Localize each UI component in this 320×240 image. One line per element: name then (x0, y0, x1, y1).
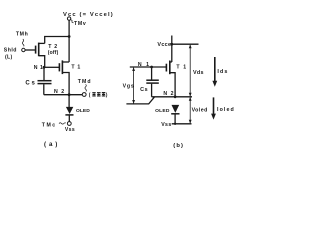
oled OLED anode wire (68, 95, 70, 107)
transistor T1 channel bar (61, 60, 63, 74)
leader squiggle TMd (85, 84, 86, 91)
svg-text:(a): (a) (44, 141, 60, 148)
wire T2 gate lead (25, 49, 35, 51)
svg-text:(L): (L) (5, 55, 13, 61)
oled OLED fig b cathode bar (171, 113, 179, 115)
measure Vgs arrow (132, 67, 135, 104)
transistor T1b gate bar (165, 64, 167, 72)
svg-text:(b): (b) (173, 143, 184, 149)
svg-text:T 1: T 1 (176, 65, 187, 71)
node N1 dot (43, 66, 46, 69)
node N2 dot fig b (174, 95, 177, 98)
svg-text:Vss: Vss (65, 127, 75, 133)
svg-text:(off): (off) (48, 50, 59, 56)
capacitor Cs top plate (38, 80, 52, 82)
svg-text:T 1: T 1 (71, 65, 81, 71)
svg-text:N 1: N 1 (34, 65, 44, 71)
svg-text:Ioled: Ioled (217, 107, 235, 113)
svg-text:Cs: Cs (25, 81, 36, 87)
node junction Vcc rail (68, 35, 71, 38)
svg-text:Cs: Cs (140, 87, 148, 93)
transistor T1b drain lead (170, 61, 172, 63)
svg-text:Vcce: Vcce (157, 42, 171, 48)
wire OLED cathode down (68, 116, 70, 122)
label not-connected (89, 92, 108, 99)
leader squiggle TMh (22, 39, 24, 46)
svg-text:Ids: Ids (217, 69, 228, 75)
terminal TMd stub (82, 93, 86, 97)
node Vcc dot fig b (170, 43, 173, 46)
svg-text:Vgs: Vgs (123, 83, 135, 89)
terminal Vcc (67, 17, 70, 20)
transistor T2 source lead (39, 56, 45, 68)
transistor T1 gate bar (58, 63, 60, 71)
measure Voled arrow (189, 97, 192, 124)
transistor T1b channel bar (169, 61, 171, 75)
svg-text:N 1: N 1 (138, 62, 151, 68)
oled OLED fig b diode triangle (172, 105, 180, 113)
svg-text:Shld: Shld (4, 48, 17, 54)
svg-text:TMd: TMd (78, 79, 92, 85)
node N1 dot fig b (150, 66, 153, 69)
transistor T1b source lead (170, 73, 175, 97)
transistor T1 drain lead (62, 61, 69, 63)
measure Vds arrow (189, 44, 192, 96)
terminal TMc (67, 122, 71, 126)
wire top rail to T2 drain (45, 37, 69, 44)
oled OLED cathode bar (65, 114, 73, 116)
wire Vcc stub (171, 36, 173, 63)
svg-text:N 2: N 2 (54, 89, 65, 95)
capacitor Cs fig b bottom lead (151, 84, 153, 97)
capacitor Cs bottom plate (38, 83, 52, 85)
transistor T2 channel bar (38, 43, 40, 57)
node N2 dot (68, 93, 71, 96)
leader squiggle TMc (59, 123, 66, 124)
capacitor Cs top lead (43, 67, 45, 80)
terminal Shld (22, 48, 25, 51)
svg-text:Vds: Vds (193, 70, 204, 76)
svg-text:OLED: OLED (155, 108, 170, 114)
current arrow Ids (212, 57, 217, 87)
svg-text:N 2: N 2 (163, 91, 174, 97)
wire N2 rail fig b (152, 96, 192, 98)
svg-text:Vss: Vss (161, 122, 171, 128)
wire N2 rail (44, 94, 83, 96)
wire Vgs bottom leader (126, 97, 154, 104)
leader squiggle TMv (71, 20, 74, 23)
node Vss dot (174, 123, 176, 125)
wire Vcc vertical (68, 20, 70, 62)
transistor T2 gate bar (35, 46, 37, 54)
wire top measure line (172, 43, 199, 45)
svg-text:(: ( (89, 93, 91, 99)
capacitor Cs fig b top lead (151, 67, 153, 80)
svg-text:Voled: Voled (192, 108, 208, 114)
wire N1 to T1 gate (44, 66, 59, 68)
svg-text:TMc: TMc (42, 122, 57, 128)
wire N1 line fig b (130, 66, 166, 68)
oled OLED diode triangle (66, 107, 73, 114)
capacitor Cs bottom lead (43, 84, 45, 95)
capacitor Cs fig b bottom plate (146, 82, 159, 84)
svg-text:TMh: TMh (16, 32, 28, 38)
wire Vss level line (172, 123, 192, 125)
wire OLED fig b cathode down (174, 114, 176, 123)
transistor T1 source lead (62, 73, 69, 95)
svg-text:Vcc (= Vccel): Vcc (= Vccel) (63, 12, 114, 18)
svg-text:OLED: OLED (76, 108, 90, 114)
svg-text:): ) (106, 93, 108, 99)
svg-text:TMv: TMv (74, 21, 86, 27)
transistor T2 drain lead (39, 42, 45, 44)
current arrow Ioled (211, 97, 216, 119)
capacitor Cs fig b top plate (146, 79, 159, 81)
